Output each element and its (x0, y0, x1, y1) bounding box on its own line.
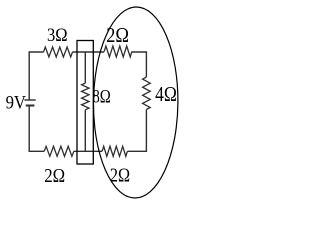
resistor 4Ω (right vertical zigzag) (143, 77, 151, 109)
resistor 2Ω (top right zigzag) (104, 46, 132, 57)
svg-text:4Ω: 4Ω (155, 82, 177, 106)
resistor 3Ω (top left zigzag) (44, 47, 73, 57)
wire top middle segment (through highlight box) (73, 51, 105, 53)
resistor 2Ω (bottom right zigzag) (102, 146, 127, 156)
wire top-left corner and left vertical upper segment (29, 52, 43, 100)
svg-text:2Ω: 2Ω (106, 23, 129, 47)
svg-text:9V: 9V (6, 93, 27, 114)
battery 9V (plates) (24, 99, 35, 106)
wire top-right corner and right vertical upper segment (132, 52, 147, 77)
wire left vertical lower segment and bottom-left corner (29, 107, 44, 152)
svg-text:3Ω: 3Ω (47, 25, 68, 46)
svg-text:2Ω: 2Ω (44, 165, 65, 187)
wire 8Ω branch bottom lead (84, 110, 86, 152)
resistor 8Ω (middle vertical zigzag) (82, 83, 89, 110)
resistor 2Ω (bottom left zigzag) (44, 146, 74, 156)
wire bottom middle segment (through highlight box) (74, 150, 102, 152)
wire right vertical lower segment and bottom-right corner (127, 110, 146, 152)
wire 8Ω branch top lead (84, 52, 86, 83)
highlight rectangle around 8Ω branch (77, 41, 93, 165)
ellipse annotation around right loop (93, 7, 179, 199)
svg-text:8Ω: 8Ω (92, 86, 110, 107)
